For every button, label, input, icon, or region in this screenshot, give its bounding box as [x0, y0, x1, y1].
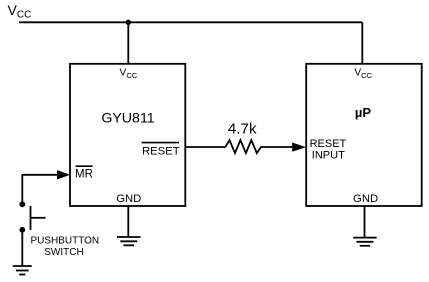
- svg-text:GND: GND: [116, 193, 141, 205]
- svg-text:PUSHBUTTON: PUSHBUTTON: [30, 236, 99, 247]
- svg-text:RESET: RESET: [310, 138, 347, 150]
- svg-text:GYU811: GYU811: [101, 111, 154, 127]
- svg-text:4.7k: 4.7k: [228, 120, 257, 137]
- svg-text:µP: µP: [355, 105, 371, 120]
- svg-text:MR: MR: [75, 169, 93, 181]
- svg-text:GND: GND: [353, 193, 378, 205]
- svg-text:INPUT: INPUT: [312, 150, 345, 162]
- svg-text:RESET: RESET: [142, 145, 180, 157]
- svg-text:SWITCH: SWITCH: [44, 247, 83, 258]
